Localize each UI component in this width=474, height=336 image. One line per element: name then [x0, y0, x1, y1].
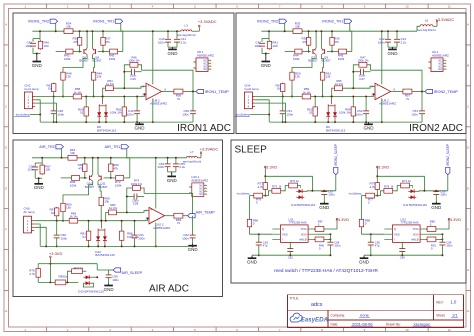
svg-text:GND: GND: [364, 126, 375, 131]
power flag +3.3VD: [264, 168, 266, 173]
ground: [435, 202, 437, 204]
wire AHLB to R90: [314, 238, 316, 240]
wire C62 under IC: [401, 242, 403, 248]
resistor R77 0: [365, 195, 376, 197]
wire R70 to diode: [299, 186, 301, 188]
wire flag IRON2_TR1 stub: [350, 23, 352, 51]
wire feedback left node: [124, 65, 129, 88]
capacitor C40 100n: [165, 38, 171, 40]
svg-text:AHLB: AHLB: [299, 238, 306, 242]
svg-text:SLEEP: SLEEP: [235, 145, 268, 156]
capacitor C51 100n: [280, 110, 286, 112]
wire bus to opamp minus input: [148, 218, 149, 220]
section box IRON1 ADC: [13, 13, 234, 134]
svg-text:10k: 10k: [70, 151, 75, 155]
svg-text:100k: 100k: [115, 183, 122, 187]
svg-text:100: 100: [45, 168, 50, 172]
net label AIR_TR1: [121, 145, 129, 149]
op-amp U8.2 AD8551ARZ: [146, 83, 162, 100]
resistor R74 100k 1%: [131, 187, 141, 189]
svg-text:100k: 100k: [109, 57, 116, 61]
resistor R51 13k: [322, 71, 324, 81]
wire sleep sub rail: [38, 281, 78, 283]
wire diode to C59 node: [91, 276, 97, 278]
svg-text:1M: 1M: [277, 87, 282, 91]
resistor R85 1k: [54, 281, 67, 283]
capacitor C43 2.2u: [394, 38, 400, 40]
svg-text:1k 1%: 1k 1%: [109, 206, 117, 210]
svg-text:+3.3VADC: +3.3VADC: [436, 17, 455, 22]
svg-text:BAT54SW,115: BAT54SW,115: [326, 128, 346, 132]
svg-text:100k 1%: 100k 1%: [339, 111, 351, 115]
svg-text:1k 1%: 1k 1%: [69, 215, 77, 219]
wire D9 top: [331, 97, 333, 105]
svg-text:REV:: REV:: [436, 301, 443, 305]
svg-text:7k: 7k: [177, 97, 181, 101]
svg-text:B: B: [467, 64, 469, 68]
wire VDD row: [428, 233, 442, 235]
wire vss row: [250, 233, 273, 235]
inductor L3: [181, 30, 192, 31]
wire C59 node: [97, 270, 108, 275]
wire C60 top: [56, 221, 58, 235]
power flag +3.3VD: [336, 220, 338, 225]
resistor R60 51: [85, 106, 87, 117]
op-amp U9.2 AD8551ARZ: [375, 83, 391, 100]
title block dividers: [287, 309, 463, 311]
resistor R90 0: [314, 238, 325, 240]
wire base right to transistor: [98, 51, 109, 53]
resistor R71 1k: [400, 185, 411, 187]
wire power down to R73: [376, 172, 378, 182]
wire C64: [329, 234, 331, 242]
wire Q11 collector: [98, 181, 101, 196]
wire C43 top: [396, 31, 398, 39]
svg-text:A: A: [5, 23, 7, 27]
svg-text:47k: 47k: [113, 166, 118, 170]
capacitor C56 100n: [32, 166, 38, 168]
svg-text:BC857: BC857: [79, 59, 89, 63]
resistor R55 1k 1%: [333, 87, 343, 89]
svg-text:100n: 100n: [25, 44, 32, 48]
resistor R78 1k: [383, 190, 394, 192]
resistor R43 100k: [109, 51, 119, 53]
wire gnd rail: [364, 254, 442, 256]
wire base left to transistor: [74, 51, 82, 53]
svg-text:iron1sleep: iron1sleep: [237, 192, 250, 196]
net label IRON2_TEMP: [425, 89, 433, 93]
net label IRON2_TR2: [279, 19, 287, 23]
svg-text:+3.3VD: +3.3VD: [264, 165, 278, 170]
wire diode right to C67 row: [304, 190, 307, 193]
svg-text:TITLE:: TITLE:: [289, 297, 299, 301]
wire AIR base left to transistor: [81, 177, 88, 179]
svg-text:L6: L6: [425, 19, 429, 23]
wire R86 bottom: [121, 241, 123, 246]
wire opamp gnd pin to bottom rail: [381, 98, 383, 122]
resistor R76 4.7k: [37, 268, 39, 279]
svg-text:BAT54SW,115: BAT54SW,115: [95, 253, 115, 257]
wire TOG to R87: [314, 228, 316, 230]
resistor R66 47k: [110, 163, 112, 173]
transistor Q9 BC857: [324, 49, 326, 54]
wire output to flag: [184, 91, 196, 93]
capacitor C55 2.2u: [173, 163, 179, 165]
wire bottom rail: [269, 121, 422, 123]
svg-text:iron2sleep: iron2sleep: [236, 113, 250, 117]
resistor R59 1k 1%: [301, 96, 312, 98]
diode D8 BAT54SW,115: [98, 104, 100, 119]
svg-text:TTP223E-HA6: TTP223E-HA6: [288, 221, 307, 225]
ground: [192, 244, 194, 246]
svg-text:GND: GND: [167, 178, 178, 183]
capacitor C44: [30, 42, 36, 44]
wire C63 to gnd rail: [258, 245, 260, 255]
svg-text:100n: 100n: [61, 237, 68, 241]
wire top loop: [377, 176, 424, 191]
svg-text:AD8551ARZ: AD8551ARZ: [191, 179, 208, 183]
svg-text:adcs: adcs: [311, 302, 323, 308]
wire C51 top: [282, 97, 284, 111]
svg-text:GND: GND: [359, 260, 370, 265]
svg-text:100n: 100n: [58, 112, 65, 116]
resistor R62 51: [314, 106, 316, 117]
capacitor C60 100n: [54, 234, 60, 236]
capacitor C65 47p: [368, 241, 374, 243]
resistor R68 100k: [71, 177, 81, 179]
resistor R38 47k: [308, 37, 310, 47]
wire C53 to bottom rail: [421, 114, 423, 122]
svg-text:2.2u: 2.2u: [179, 165, 185, 169]
wire mid: [250, 195, 253, 197]
wire top loop: [265, 176, 312, 191]
wire TR2 net / power rail: [32, 30, 64, 32]
svg-text:13k: 13k: [97, 75, 102, 79]
wire R73 bottom to mid wire: [264, 190, 266, 195]
svg-text:47k: 47k: [73, 40, 78, 44]
svg-text:47p: 47p: [263, 243, 268, 247]
wire R81 bottom: [88, 241, 90, 246]
svg-text:Company:: Company:: [331, 314, 346, 318]
wire main bus continues: [312, 96, 374, 98]
svg-text:1k 1%: 1k 1%: [106, 82, 114, 86]
svg-text:13k: 13k: [295, 75, 300, 79]
resistor R67 100: [41, 164, 43, 175]
svg-text:100n: 100n: [287, 112, 294, 116]
svg-text:4.7k: 4.7k: [29, 272, 35, 276]
wire TR2 net / power rail: [261, 30, 293, 32]
wire C61 bottom: [134, 238, 136, 247]
wire R81 top: [88, 221, 90, 230]
svg-text:TOG: TOG: [413, 227, 419, 231]
wire base left: [285, 51, 294, 53]
svg-text:iron2 temp: iron2 temp: [244, 87, 259, 91]
wire R77 left: [68, 271, 71, 282]
svg-text:10: 10: [405, 5, 409, 9]
svg-text:AHLB: AHLB: [411, 238, 418, 242]
wire feedback to output: [142, 70, 193, 91]
wire R64 bottom: [352, 117, 354, 122]
inductor L6: [420, 25, 433, 27]
wire output vertical to C53: [421, 92, 423, 111]
svg-text:100n: 100n: [112, 278, 119, 282]
wire R87 to power: [325, 224, 337, 229]
wire R38 bottom to base wire: [308, 46, 310, 51]
resistor R63 1M: [282, 83, 284, 93]
net label IRON1_SLEEP: [334, 167, 338, 175]
svg-text:R78: R78: [384, 185, 390, 189]
svg-text:GND: GND: [34, 185, 45, 190]
wire to power flag: [192, 30, 200, 32]
ground: [171, 172, 173, 177]
wire C60 bottom to gnd rail: [56, 238, 58, 247]
svg-text:100n: 100n: [328, 193, 335, 197]
svg-text:BC857: BC857: [92, 59, 102, 63]
wire R62 bottom: [314, 117, 316, 122]
section box AIR ADC: [13, 140, 223, 296]
wire diode right to C67 row: [416, 190, 419, 193]
svg-text:H: H: [5, 309, 7, 313]
wire R60 bottom: [85, 117, 87, 122]
svg-text:F: F: [467, 227, 469, 231]
svg-text:IRON2 ADC: IRON2 ADC: [409, 123, 463, 134]
wire AIR main bus continues: [79, 220, 148, 222]
capacitor C67 100n: [321, 191, 327, 193]
svg-text:100: 100: [44, 44, 49, 48]
resistor R56 7k: [173, 91, 184, 93]
svg-text:C58: C58: [133, 202, 139, 206]
wire flag vertical: [447, 175, 449, 191]
wire R70 to diode: [411, 186, 413, 188]
wire decoupling caps to gnd: [167, 43, 169, 48]
svg-text:13k: 13k: [66, 75, 71, 79]
resistor R70 1k: [288, 185, 299, 187]
wire filter bottom join: [261, 48, 263, 54]
wire C63 to gnd rail: [370, 245, 372, 255]
capacitor C50 100n: [190, 110, 196, 112]
svg-text:E: E: [467, 186, 469, 190]
wire Q8 collector: [92, 55, 94, 71]
svg-text:2021-08-06: 2021-08-06: [352, 321, 373, 326]
wire AIR main bus from CN6 pin1: [34, 220, 68, 222]
svg-text:7k: 7k: [406, 97, 410, 101]
EasyEDA logo cloud: [290, 313, 302, 322]
wire R76 bottom to sub rail: [37, 278, 39, 282]
diode D13 BAT54SW,115: [83, 276, 91, 278]
ground: [251, 256, 253, 258]
wire C62 to gnd: [192, 238, 194, 244]
resistor R64 100k 1%: [352, 106, 354, 117]
svg-text:GND: GND: [388, 51, 399, 56]
svg-text:AIR ADC: AIR ADC: [149, 284, 189, 295]
svg-text:GND: GND: [32, 63, 43, 68]
resistor R72 100k: [115, 177, 125, 179]
wire AIR base left: [61, 177, 71, 179]
wire R36 bottom to base wire: [79, 46, 81, 51]
wire AIR filter verticals: [41, 158, 43, 164]
wire R48 bottom to bus: [62, 81, 64, 96]
wire feedback left node: [353, 65, 358, 88]
svg-text:AD8551ARZ: AD8551ARZ: [197, 54, 214, 58]
transistor Q7 BC857: [312, 49, 314, 54]
svg-text:+: +: [147, 84, 149, 88]
inductor L7: [186, 156, 197, 157]
svg-text:4.7k: 4.7k: [369, 185, 375, 189]
wire opamp gnd pin to bottom rail: [152, 98, 154, 122]
wire R87 stub: [56, 217, 58, 221]
wire R36 top: [79, 31, 81, 36]
wire CN pin2 to bottom rail: [35, 100, 40, 122]
wire base right to transistor: [327, 51, 338, 53]
svg-text:TOG: TOG: [301, 227, 307, 231]
wire R37 bottom to base wire: [102, 46, 104, 51]
wire C67 row: [419, 190, 448, 192]
svg-text:11: 11: [448, 328, 451, 332]
diode D10 BAT54SW,115: [296, 190, 304, 192]
ground: [265, 54, 267, 62]
wire CN6 pin3 to bottom rail: [34, 227, 46, 246]
wire R86 bottom to vss wire: [249, 228, 251, 234]
resistor R88 0: [361, 218, 363, 227]
wire output vertical to C50: [192, 92, 194, 111]
resistor R62 1M: [53, 83, 55, 93]
svg-text:13k: 13k: [326, 75, 331, 79]
wire decoupling caps to gnd: [387, 43, 389, 48]
svg-text:+: +: [150, 208, 152, 212]
wire C41 top: [176, 31, 178, 39]
ground: [368, 122, 370, 124]
power flag +3.3VD: [49, 258, 51, 263]
svg-text:TTP223E-HA6: TTP223E-HA6: [400, 221, 419, 225]
wire rail elbow up to inductor: [417, 26, 420, 31]
resistor R42 100k: [65, 51, 74, 53]
svg-text:C46: C46: [130, 77, 136, 81]
capacitor C48 100n: [51, 110, 57, 112]
svg-text:iron2sleep: iron2sleep: [349, 192, 362, 196]
svg-text:7k: 7k: [177, 221, 181, 225]
svg-text:10: 10: [405, 328, 409, 332]
svg-text:+: +: [376, 84, 378, 88]
wire left column: [361, 196, 363, 219]
resistor R86 100k 1%: [121, 230, 123, 241]
wire R60 top: [85, 97, 87, 106]
svg-text:GND: GND: [319, 205, 330, 210]
transistor Q6 BC857: [83, 49, 85, 54]
wire gnd rail: [252, 254, 330, 256]
wire R50 bottom to bus: [291, 81, 293, 96]
wire plus-input branch: [103, 88, 105, 96]
wire R69 bottom to bus: [100, 207, 102, 221]
svg-text:AIR_TR2: AIR_TR2: [39, 145, 55, 149]
svg-text:A: A: [467, 23, 469, 27]
ground: [323, 202, 325, 204]
capacitor C47 100n: [360, 69, 362, 75]
wire to plus input: [117, 211, 149, 213]
wire C61 top: [134, 221, 136, 235]
wire R39 bottom to base wire: [331, 46, 333, 51]
wire AIR decoupling caps to gnd: [167, 167, 169, 172]
wire C51 bottom to gnd rail: [282, 114, 284, 122]
wire D12 bottoms to rail: [97, 244, 99, 247]
wire C63: [370, 234, 372, 242]
svg-text:Sheet:: Sheet:: [436, 314, 445, 318]
svg-text:B: B: [5, 64, 7, 68]
resistor R48 13k: [62, 71, 64, 81]
svg-text:IRON2_TR1: IRON2_TR1: [322, 20, 343, 24]
svg-text:2.2u: 2.2u: [181, 40, 187, 44]
ground: [38, 178, 40, 184]
wire R65 top: [84, 158, 86, 163]
svg-text:+3.3VADC: +3.3VADC: [200, 147, 219, 152]
svg-text:swm-bag-60zn1d: swm-bag-60zn1d: [417, 29, 436, 32]
svg-text:H: H: [467, 309, 469, 313]
wire opamp power pin to rail: [381, 31, 383, 84]
wire bottom rail: [40, 121, 193, 123]
svg-text:10k: 10k: [66, 25, 71, 29]
section box IRON2 ADC: [236, 13, 466, 134]
wire to plus input: [114, 86, 146, 88]
wire R76 top: [38, 263, 50, 265]
resistor R49 13k: [93, 71, 95, 81]
diode D9 BAT54SW,115: [327, 104, 329, 119]
svg-text:L3: L3: [185, 24, 189, 28]
wire flag IRON2_TR2 stub: [284, 23, 286, 31]
svg-text:100n: 100n: [411, 112, 418, 116]
svg-text:100k: 100k: [338, 57, 345, 61]
wire C40 top: [167, 31, 169, 39]
ground: [139, 122, 141, 124]
wire filter bottom join: [32, 48, 34, 54]
resistor R58 1k 1%: [72, 96, 83, 98]
resistor R37 47k: [102, 37, 104, 47]
svg-text:100k: 100k: [64, 57, 71, 61]
capacitor C54 100n: [165, 163, 171, 165]
svg-text:100n: 100n: [157, 165, 164, 169]
wire C67 row: [307, 190, 336, 192]
svg-text:47k: 47k: [334, 40, 339, 44]
svg-text:100n: 100n: [356, 112, 363, 116]
wire C59 bottom to gnd: [108, 278, 110, 283]
section box SLEEP: [231, 140, 466, 283]
diode D11 BAT54SW,115: [408, 190, 416, 192]
wire R62 stub: [53, 93, 55, 97]
svg-text:D10 BAT54SW,115: D10 BAT54SW,115: [291, 203, 315, 207]
wire C63: [258, 234, 260, 242]
capacitor C63 47p: [256, 241, 262, 243]
wire emitters to rail: [86, 31, 88, 48]
svg-text:none: none: [360, 313, 370, 318]
svg-text:F: F: [5, 227, 7, 231]
ground: [36, 54, 38, 62]
wire AIR feedback to output: [144, 193, 193, 215]
wire to power flag +3.3VADC: [197, 157, 201, 159]
resistor R44 100k: [294, 51, 303, 53]
resistor R84 1k 1%: [68, 220, 79, 222]
wire AIR bottom rail: [40, 245, 192, 247]
wire R77 right to diode: [83, 270, 86, 272]
wire R61 top: [123, 97, 125, 106]
wire Q10 collector: [63, 181, 93, 202]
power flag +3.3VADC air: [200, 153, 202, 158]
svg-text:+3.3VADC: +3.3VADC: [198, 19, 217, 24]
resistor R64 10k: [67, 157, 78, 159]
svg-text:+3.3VD: +3.3VD: [336, 217, 350, 222]
svg-text:+3.3VD: +3.3VD: [49, 251, 63, 256]
svg-text:NC: NC: [439, 68, 443, 71]
svg-text:GND: GND: [188, 247, 199, 252]
wire C49 top: [136, 97, 138, 111]
wire main bus from CN pin1: [35, 96, 72, 98]
